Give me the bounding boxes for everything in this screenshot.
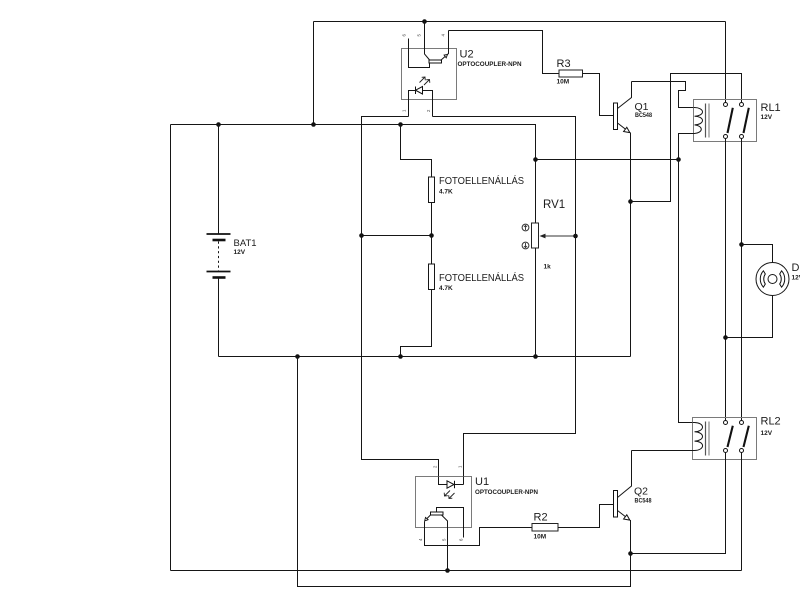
svg-text:U1: U1 — [475, 476, 489, 488]
wire RL1 sw1 to RL2 sw1 — [725, 139, 727, 421]
wire photoresistor 2 top lead — [431, 236, 433, 265]
svg-text:D: D — [792, 262, 800, 274]
svg-text:1k: 1k — [544, 264, 552, 271]
potentiometer RV1 wiper arrow — [540, 234, 576, 239]
svg-text:12V: 12V — [792, 275, 800, 282]
potentiometer RV1 decrement circle — [522, 242, 529, 249]
wire photoresistor 2 bottom lead to ground bus — [401, 290, 432, 357]
svg-text:RL1: RL1 — [761, 102, 781, 114]
svg-text:4.7K: 4.7K — [439, 285, 453, 292]
node junction Q2 emitter / ground return — [628, 551, 633, 556]
wire Q2 collector to RL2 coil bottom — [632, 450, 693, 452]
potentiometer RV1 body — [532, 223, 539, 248]
battery BAT1 — [207, 125, 231, 357]
svg-text:12V: 12V — [234, 249, 246, 256]
svg-text:R2: R2 — [534, 512, 548, 524]
wire U2 pin1 stub — [408, 100, 410, 117]
wire RL2 sw1 bottom to Q2 emitter — [631, 453, 726, 554]
relay RL1 — [694, 100, 757, 142]
node junction midpoint / LED column — [359, 233, 364, 238]
wire U2 emitter to R3 — [449, 31, 560, 74]
node junction bus / photoresistor 1 — [398, 122, 403, 127]
node junction ground bus / RV1 bottom — [533, 354, 538, 359]
svg-text:12V: 12V — [761, 114, 773, 121]
photoresistor FOTOELLENÁLLÁS 2 body — [429, 264, 435, 290]
potentiometer RV1 top lead — [535, 160, 537, 224]
node junction ground bus / bottom return — [295, 354, 300, 359]
node junction RV1 wiper — [573, 234, 578, 239]
wire RV1 bottom lead — [535, 248, 537, 357]
node junction midpoint / photoresistors — [429, 233, 434, 238]
svg-text:10M: 10M — [557, 79, 570, 86]
wire Q1 collector to RL1 coil top — [632, 82, 694, 108]
optocoupler U1 — [416, 477, 533, 571]
wire +12V bus — [171, 125, 536, 160]
wire divider midpoint link — [362, 235, 432, 237]
wire R3 to Q1 base — [583, 74, 614, 116]
relay RL2 — [693, 418, 757, 460]
wire U2 pin2 to RV1 wiper — [433, 117, 576, 237]
node junction motor bottom tap — [723, 335, 728, 340]
transistor Q1 — [614, 82, 632, 133]
node junction motor top tap — [739, 242, 744, 247]
svg-text:OPTOCOUPLER-NPN: OPTOCOUPLER-NPN — [458, 61, 522, 68]
wire RL1 sw2 to RL2 sw2 — [741, 139, 743, 421]
svg-text:OPTOCOUPLER-NPN: OPTOCOUPLER-NPN — [475, 489, 538, 496]
resistor R3 — [559, 70, 583, 77]
wire riser from +12 bus to top bus — [313, 22, 315, 125]
node junction bus / riser — [311, 122, 316, 127]
photoresistor FOTOELLENÁLLÁS 1 body — [429, 177, 435, 203]
wire photoresistor 1 top feed — [401, 125, 432, 178]
wire Q2 emitter down — [630, 520, 632, 554]
wire R2 to Q2 base — [558, 505, 614, 528]
svg-text:FOTOELLENÁLLÁS: FOTOELLENÁLLÁS — [439, 174, 524, 187]
node junction ground bus / photoresistor 2 — [398, 354, 403, 359]
wire ground bus — [219, 356, 631, 358]
wire RV1 wiper to U1 pin1 — [464, 236, 576, 477]
wire ground return to Q2 emitter — [298, 357, 631, 587]
wire LED column (U2 pin1 to U1 pin2) — [362, 117, 439, 477]
wire photoresistor 1 bottom lead — [431, 203, 433, 236]
wire top bus (+12V to U2 collector and RL1 sw1) — [314, 21, 726, 23]
svg-text:BC548: BC548 — [635, 112, 652, 119]
svg-text:R3: R3 — [557, 58, 571, 70]
node junction bus / battery — [216, 122, 221, 127]
svg-text:BC548: BC548 — [635, 498, 652, 505]
svg-text:FOTOELLENÁLLÁS: FOTOELLENÁLLÁS — [439, 271, 524, 284]
wire Q1 emitter to ground bus — [630, 133, 632, 357]
node junction RV1 top / +12 feed — [533, 157, 538, 162]
svg-text:10M: 10M — [534, 534, 547, 541]
optocoupler U2 — [402, 22, 457, 100]
svg-text:RV1: RV1 — [543, 199, 565, 211]
svg-text:12V: 12V — [761, 430, 773, 437]
wire bottom rail — [171, 570, 742, 572]
svg-text:4.7K: 4.7K — [439, 189, 453, 196]
node junction relay supply — [676, 157, 681, 162]
svg-text:BAT1: BAT1 — [234, 238, 257, 249]
motor D — [726, 245, 790, 338]
wire RL1 sw1 top from +12 top bus — [725, 22, 727, 103]
svg-text:U2: U2 — [460, 49, 474, 61]
node junction U1 collector / bottom rail — [445, 568, 450, 573]
wire +12 link RV1 node to relays — [536, 159, 679, 161]
wire RL1 coil bottom to +12 and RL2 coil top — [679, 134, 694, 423]
node junction Q1 emitter / RL1 sw2 return — [628, 199, 633, 204]
svg-text:RL2: RL2 — [761, 416, 781, 428]
potentiometer RV1 increment circle — [522, 224, 529, 231]
node junction top bus / U2 collector — [422, 19, 427, 24]
transistor Q2 — [614, 451, 632, 521]
wire RL2 sw2 bottom to +12 rail — [741, 453, 743, 571]
wire RL1 sw2 top to ground — [631, 74, 742, 202]
wire U2 pin2 stub — [432, 100, 434, 117]
resistor R2 — [532, 524, 558, 532]
wire left rail — [170, 125, 172, 571]
svg-text:Q2: Q2 — [634, 486, 648, 498]
